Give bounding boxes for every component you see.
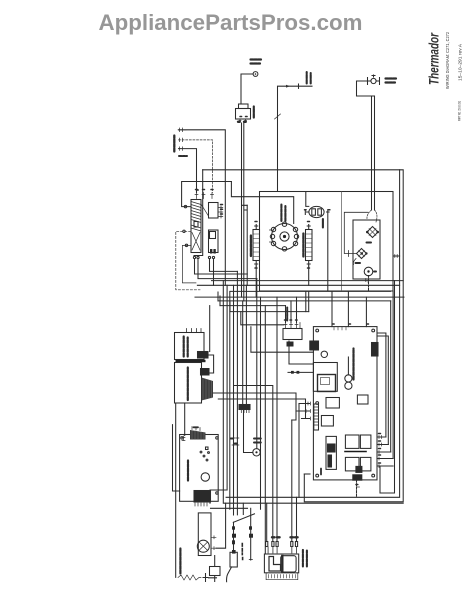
svg-text:Thermador: Thermador	[427, 32, 442, 85]
svg-text:PART NO. 15-10-291: PART NO. 15-10-291	[458, 101, 462, 121]
svg-text:15–10–291 rev A: 15–10–291 rev A	[458, 43, 463, 81]
svg-text:WIRING DIAGRAM: C271, C272: WIRING DIAGRAM: C271, C272	[445, 32, 450, 89]
